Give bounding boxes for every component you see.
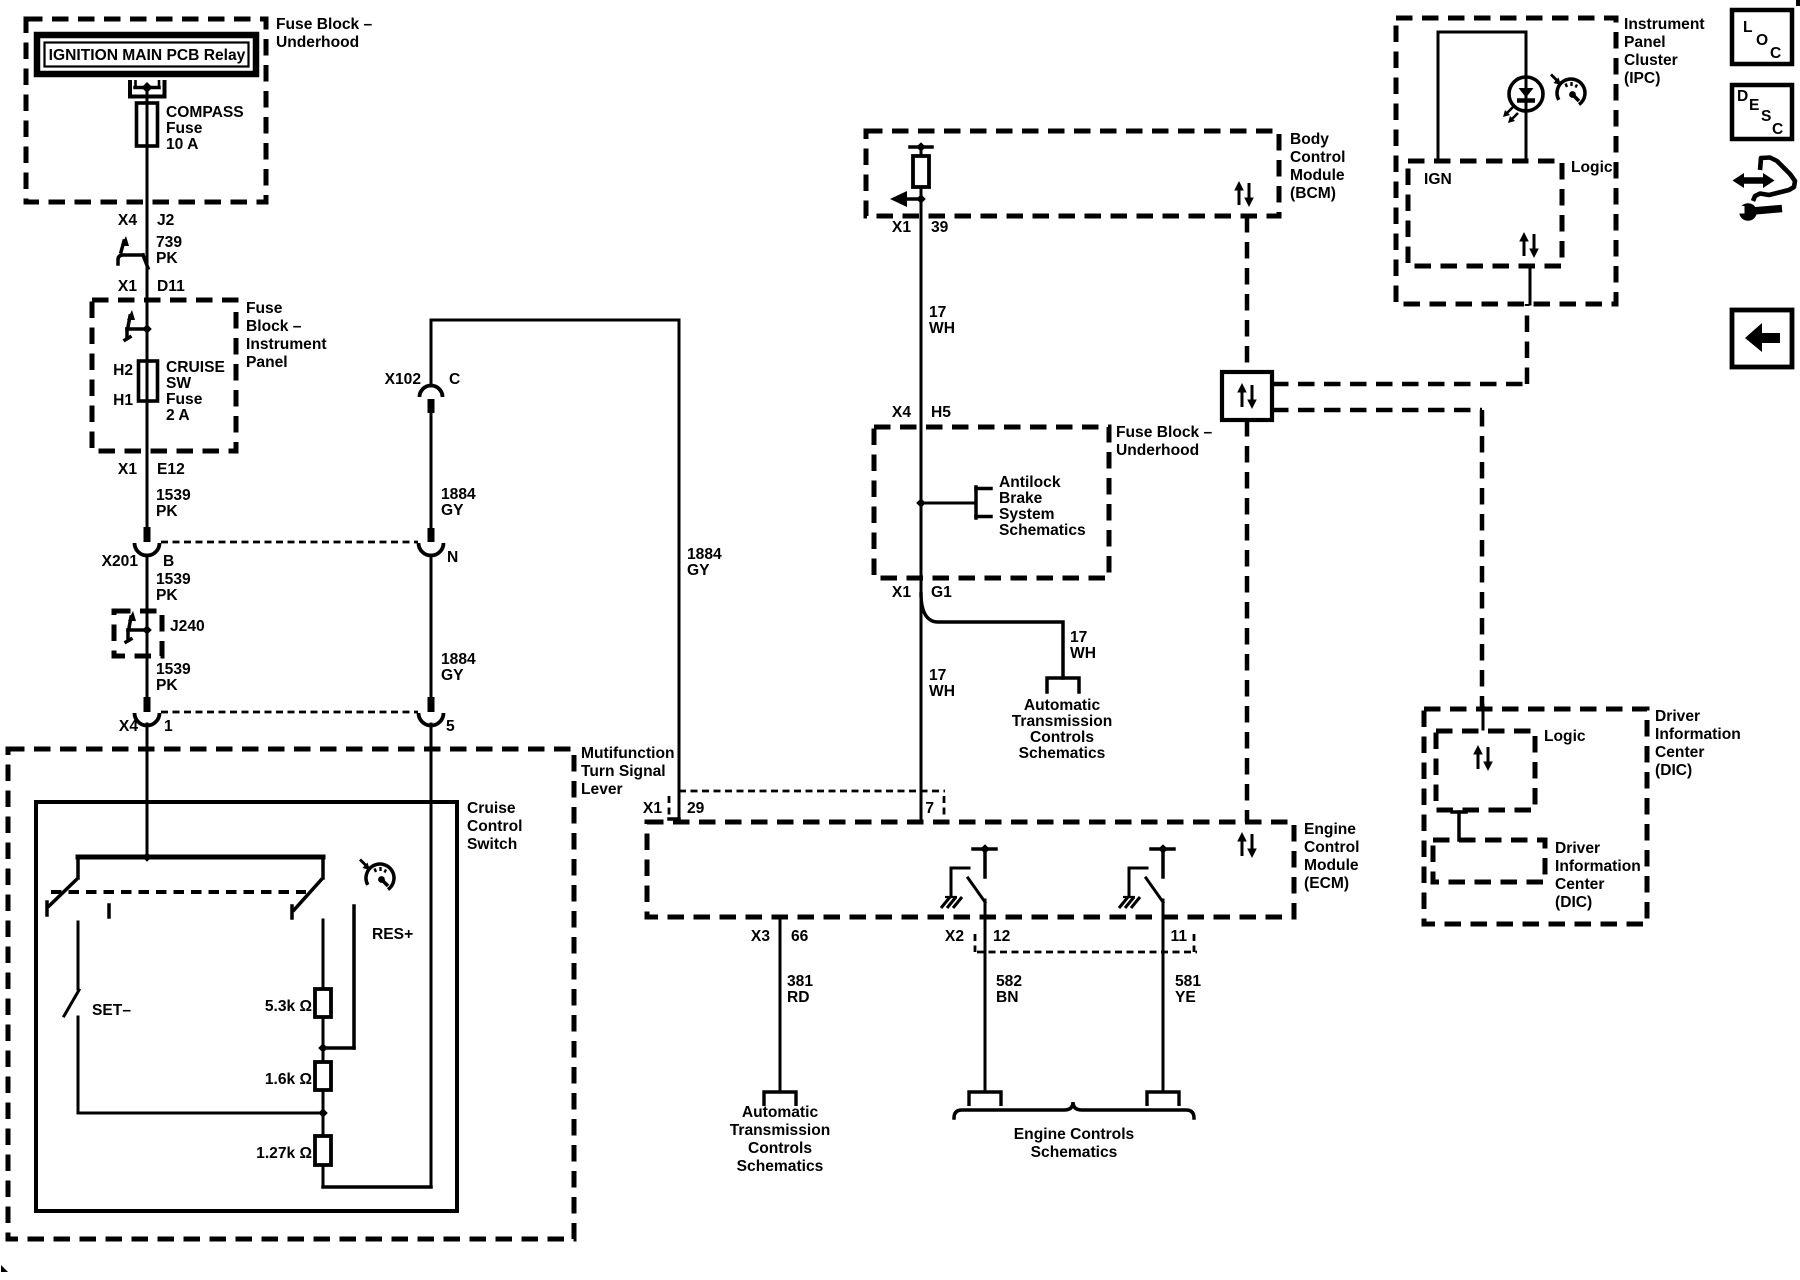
wire 581 YE ECM pin 11 — [1162, 902, 1165, 1092]
svg-text:5: 5 — [446, 718, 455, 735]
svg-text:Schematics: Schematics — [999, 522, 1086, 539]
svg-text:X201: X201 — [102, 553, 139, 570]
wire label 1539 PK (3) — [156, 661, 191, 694]
svg-text:Engine: Engine — [1304, 821, 1356, 838]
svg-text:X3: X3 — [751, 928, 770, 945]
connector X4 pin 1 — [135, 713, 160, 725]
label automatic transmission controls schematics (mid) — [1012, 697, 1113, 762]
svg-text:1884: 1884 — [441, 486, 476, 503]
label COMPASS fuse value — [166, 104, 244, 153]
svg-text:X1: X1 — [892, 584, 911, 601]
svg-text:Fuse: Fuse — [166, 391, 203, 408]
cruise control switch box — [36, 802, 457, 1211]
instrument panel cluster IPC box — [1396, 18, 1616, 304]
wire label 1539 PK (1) — [156, 487, 191, 520]
antilock brake system schematics tap — [916, 487, 991, 518]
relay K1 output terminal — [130, 80, 165, 104]
DIC logic serial arrows — [1473, 745, 1493, 771]
IPC logic serial arrows — [1519, 232, 1539, 258]
multifunction turn signal lever box — [8, 749, 574, 1239]
pin label X3 66 — [751, 928, 809, 945]
svg-text:12: 12 — [993, 928, 1011, 945]
svg-text:Control: Control — [1290, 149, 1345, 166]
svg-text:Underhood: Underhood — [276, 34, 359, 51]
svg-text:BN: BN — [996, 989, 1019, 1006]
svg-text:Panel: Panel — [1624, 34, 1666, 51]
svg-text:1: 1 — [164, 718, 173, 735]
svg-text:17: 17 — [929, 667, 946, 684]
wire 1884 GY X102 branch vertical — [430, 413, 433, 1187]
ECM serial data arrows — [1237, 832, 1257, 858]
wire DIC lead in — [1482, 705, 1485, 729]
fuse block underhood box (middle) — [874, 427, 1109, 578]
svg-text:X4: X4 — [119, 718, 138, 735]
svg-text:X1: X1 — [643, 800, 662, 817]
connector X201 pin B — [135, 543, 160, 555]
label SET- — [92, 1002, 131, 1019]
serial data dashed wire to IPC — [1272, 304, 1527, 384]
svg-text:17: 17 — [1070, 629, 1087, 646]
svg-text:Logic: Logic — [1571, 159, 1613, 176]
wire 381 RD ECM X3-66 — [779, 917, 782, 1092]
svg-text:Body: Body — [1290, 131, 1329, 148]
svg-text:Module: Module — [1304, 857, 1359, 874]
wire 17 WH branch at G1 to automatic transmission — [921, 594, 1063, 678]
connector row ECM X1 29-7 dashed — [669, 791, 945, 816]
switch mechanical link dashed — [51, 892, 306, 917]
svg-text:Fuse Block –: Fuse Block – — [1116, 424, 1213, 441]
wire label 381 RD — [787, 973, 813, 1006]
connector row ECM X2 12-11 dashed — [975, 934, 1197, 952]
svg-text:G1: G1 — [931, 584, 952, 601]
label driver information center (inner) — [1555, 840, 1641, 911]
svg-text:1.6k Ω: 1.6k Ω — [265, 1071, 312, 1088]
pin label X1 39 — [892, 219, 949, 236]
pin label X4 H5 — [892, 404, 951, 421]
label body control module — [1290, 131, 1345, 202]
label engine controls schematics — [1014, 1126, 1135, 1161]
connector label N — [447, 549, 458, 566]
svg-text:Driver: Driver — [1555, 840, 1600, 857]
connector label X4 1 5 — [119, 718, 455, 735]
svg-text:Center: Center — [1555, 876, 1604, 893]
IPC cruise gauge icon — [1551, 75, 1585, 105]
svg-text:Information: Information — [1655, 726, 1741, 743]
icon DESC box — [1732, 85, 1792, 139]
fuse block instrument panel box — [92, 300, 236, 451]
wire label 17 WH (3) — [929, 667, 955, 700]
svg-text:X4: X4 — [892, 404, 911, 421]
svg-text:J2: J2 — [157, 212, 175, 229]
svg-text:Fuse Block –: Fuse Block – — [276, 16, 373, 33]
svg-text:B: B — [163, 553, 174, 570]
svg-text:X102: X102 — [385, 371, 422, 388]
splice J240 box — [114, 611, 162, 656]
svg-text:Schematics: Schematics — [737, 1158, 824, 1175]
icon LOC box — [1732, 10, 1792, 64]
DIC display box — [1433, 840, 1545, 882]
svg-text:WH: WH — [929, 683, 955, 700]
SET- switch branch — [64, 922, 323, 1113]
serial data dashed wire to DIC — [1272, 410, 1482, 709]
engine controls schematics brace — [954, 1102, 1194, 1118]
svg-text:System: System — [999, 506, 1054, 523]
wire 582 BN ECM X2-12 — [984, 902, 987, 1092]
connector label X102 C — [385, 371, 461, 388]
svg-text:C: C — [1770, 45, 1781, 62]
svg-text:RES+: RES+ — [372, 926, 413, 943]
svg-text:Instrument: Instrument — [1624, 16, 1705, 33]
label IGN — [1424, 171, 1452, 188]
inline connector X1-D11 — [118, 236, 148, 268]
connector X201 pin B male tip — [144, 527, 151, 542]
svg-text:Automatic: Automatic — [742, 1104, 819, 1121]
connector pin 5 male tip — [428, 697, 435, 712]
label antilock brake system schematics — [999, 474, 1086, 539]
svg-text:66: 66 — [791, 928, 809, 945]
serial data dashed wire BCM to ECM — [1245, 216, 1250, 822]
svg-text:S: S — [1761, 108, 1771, 125]
svg-text:IGNITION MAIN PCB Relay: IGNITION MAIN PCB Relay — [49, 47, 246, 64]
svg-text:RD: RD — [787, 989, 810, 1006]
svg-text:(BCM): (BCM) — [1290, 185, 1336, 202]
fuse COMPASS 10A — [137, 100, 158, 149]
connector pin N male tip — [428, 528, 435, 542]
svg-text:Fuse: Fuse — [166, 120, 203, 137]
svg-text:(IPC): (IPC) — [1624, 70, 1660, 87]
svg-text:E12: E12 — [157, 461, 185, 478]
svg-text:Controls: Controls — [1030, 729, 1094, 746]
wire label 1884 GY (1) — [441, 486, 476, 519]
svg-text:E: E — [1749, 97, 1759, 114]
svg-text:PK: PK — [156, 250, 178, 267]
go to automatic transmission controls symbol X3-66 — [764, 1092, 796, 1106]
svg-text:29: 29 — [687, 800, 705, 817]
svg-text:PK: PK — [156, 677, 178, 694]
svg-text:Antilock: Antilock — [999, 474, 1061, 491]
label J240 — [170, 618, 205, 635]
resistor 1.27k — [315, 1136, 331, 1165]
svg-text:Driver: Driver — [1655, 708, 1700, 725]
svg-text:17: 17 — [929, 304, 946, 321]
svg-text:X4: X4 — [118, 212, 137, 229]
svg-text:381: 381 — [787, 973, 813, 990]
go to automatic transmission controls symbol (mid) — [1047, 678, 1079, 692]
label engine control module — [1304, 821, 1359, 892]
svg-text:PK: PK — [156, 587, 178, 604]
switch right blade — [292, 857, 323, 918]
IPC cruise indicator LED — [1503, 77, 1543, 123]
svg-text:Center: Center — [1655, 744, 1704, 761]
connector label X201 B — [102, 553, 175, 570]
svg-text:C: C — [449, 371, 460, 388]
DIC logic box — [1436, 731, 1535, 810]
label instrument panel cluster — [1624, 16, 1705, 87]
wire cruise switch bottom run to pin 5 — [323, 1185, 431, 1189]
splice J240 symbol — [126, 611, 152, 642]
svg-text:Turn Signal: Turn Signal — [581, 763, 666, 780]
svg-text:2 A: 2 A — [166, 407, 190, 424]
connector row X4-1-5 dashed — [161, 711, 418, 714]
svg-text:CRUISE: CRUISE — [166, 359, 225, 376]
resistor 1.6k — [315, 1062, 331, 1090]
label RES+ — [372, 926, 413, 943]
wire label 17 WH (1) — [929, 304, 955, 337]
go to engine controls symbol pin 11 — [1147, 1092, 1179, 1106]
svg-text:Engine Controls: Engine Controls — [1014, 1126, 1135, 1143]
svg-text:(DIC): (DIC) — [1655, 762, 1692, 779]
switch RES/SET left blade — [47, 857, 78, 915]
svg-text:N: N — [447, 549, 458, 566]
wire cruise switch common bar — [78, 852, 323, 862]
go to engine controls symbol pin 12 — [969, 1092, 1001, 1106]
svg-text:Brake: Brake — [999, 490, 1043, 507]
svg-text:Switch: Switch — [467, 836, 517, 853]
svg-text:(ECM): (ECM) — [1304, 875, 1349, 892]
svg-text:Automatic: Automatic — [1024, 697, 1101, 714]
connector row X201-B-N dashed — [161, 541, 418, 544]
svg-text:X1: X1 — [118, 461, 137, 478]
wire LED to IPC logic — [1525, 111, 1528, 161]
pin label X4 J2 — [118, 212, 175, 229]
svg-text:SW: SW — [166, 375, 191, 392]
pin label X1 D11 — [118, 278, 185, 295]
svg-text:Mutifunction: Mutifunction — [581, 745, 675, 762]
pin label X1 29 7 — [643, 800, 934, 817]
svg-text:SET–: SET– — [92, 1002, 131, 1019]
ECM driver transistor switch for pin 12 — [941, 844, 996, 918]
fuse block underhood box (top left) — [26, 19, 266, 202]
pin label X2 12 11 — [945, 928, 1187, 945]
svg-text:Instrument: Instrument — [246, 336, 327, 353]
svg-text:Cruise: Cruise — [467, 800, 516, 817]
svg-text:Schematics: Schematics — [1031, 1144, 1118, 1161]
wire 17 WH BCM to ECM pin 7 — [920, 147, 923, 821]
svg-text:10 A: 10 A — [166, 136, 198, 153]
driver information center DIC box — [1424, 709, 1647, 924]
wire label 1884 GY (2) — [441, 651, 476, 684]
ECM driver transistor switch for pin 11 — [1119, 844, 1174, 918]
svg-text:581: 581 — [1175, 973, 1201, 990]
wire IPC logic to serial data — [1529, 266, 1532, 304]
svg-text:Transmission: Transmission — [1012, 713, 1113, 730]
svg-text:WH: WH — [1070, 645, 1096, 662]
svg-text:GY: GY — [687, 562, 710, 579]
pin label X1 E12 — [118, 461, 185, 478]
fuse CRUISE SW 2A — [139, 358, 158, 404]
svg-text:Control: Control — [1304, 839, 1359, 856]
label fuse block instrument panel — [246, 300, 327, 371]
pin labels H2 H1 — [113, 362, 133, 409]
connector X4 pin 1 male tip — [144, 697, 151, 712]
svg-text:1539: 1539 — [156, 487, 191, 504]
label automatic transmission controls schematics (bottom) — [730, 1104, 831, 1175]
svg-text:H1: H1 — [113, 392, 133, 409]
svg-text:X1: X1 — [892, 219, 911, 236]
svg-text:Information: Information — [1555, 858, 1641, 875]
svg-text:D11: D11 — [157, 278, 185, 295]
wire label 1539 PK (2) — [156, 571, 191, 604]
svg-text:5.3k Ω: 5.3k Ω — [265, 998, 312, 1015]
svg-text:Module: Module — [1290, 167, 1345, 184]
svg-text:Underhood: Underhood — [1116, 442, 1199, 459]
connector pin 5 — [419, 713, 444, 725]
wire 1884 GY to ECM pin 29 — [431, 320, 679, 819]
value label 1.6k ohm — [265, 1071, 312, 1088]
BCM resistor — [913, 156, 929, 187]
svg-text:H5: H5 — [931, 404, 951, 421]
icon back arrow box — [1732, 310, 1792, 367]
svg-text:7: 7 — [925, 800, 934, 817]
svg-text:1.27k Ω: 1.27k Ω — [256, 1145, 312, 1162]
label driver information center (outer) — [1655, 708, 1741, 779]
wire label 582 BN — [996, 973, 1022, 1006]
svg-text:J240: J240 — [170, 618, 205, 635]
svg-text:Transmission: Transmission — [730, 1122, 831, 1139]
svg-text:Panel: Panel — [246, 354, 288, 371]
engine control module ECM box — [647, 822, 1294, 917]
svg-text:Controls: Controls — [748, 1140, 812, 1157]
label fuse block underhood — [276, 16, 373, 51]
svg-text:X1: X1 — [118, 278, 137, 295]
svg-text:Fuse: Fuse — [246, 300, 283, 317]
wire label 581 YE — [1175, 973, 1201, 1006]
wire label 739 PK — [156, 234, 182, 267]
label multifunction turn signal lever — [581, 745, 675, 798]
svg-text:1539: 1539 — [156, 661, 191, 678]
svg-text:GY: GY — [441, 667, 464, 684]
icon diagnostic hand arrows wrench — [1733, 158, 1796, 221]
svg-text:D: D — [1737, 88, 1748, 105]
svg-text:1884: 1884 — [687, 546, 722, 563]
svg-text:11: 11 — [1171, 928, 1188, 945]
svg-text:Schematics: Schematics — [1019, 745, 1106, 762]
wire IPC IGN feed — [1438, 32, 1526, 161]
RES+ branch wire — [323, 906, 354, 1048]
link DIC logic to display — [1452, 812, 1466, 840]
svg-text:Cluster: Cluster — [1624, 52, 1678, 69]
svg-text:COMPASS: COMPASS — [166, 104, 244, 121]
svg-text:X2: X2 — [945, 928, 964, 945]
cruise gauge icon — [360, 860, 394, 890]
svg-text:739: 739 — [156, 234, 182, 251]
svg-text:O: O — [1756, 32, 1768, 49]
boxed serial data arrows junction — [1222, 372, 1272, 420]
wire 739/1539 PK main left vertical — [146, 92, 149, 857]
svg-text:WH: WH — [929, 320, 955, 337]
svg-text:C: C — [1772, 121, 1783, 138]
svg-text:IGN: IGN — [1424, 171, 1452, 188]
svg-text:L: L — [1743, 19, 1753, 36]
wire label 17 WH (2) — [1070, 629, 1096, 662]
pin label X1 G1 — [892, 584, 952, 601]
label IPC logic — [1571, 159, 1613, 176]
svg-text:(DIC): (DIC) — [1555, 894, 1592, 911]
label fuse block underhood (middle) — [1116, 424, 1213, 459]
resistor 5.3k — [315, 989, 331, 1017]
svg-text:582: 582 — [996, 973, 1022, 990]
resistor chain wire — [318, 920, 328, 1187]
BCM serial data arrows — [1234, 181, 1254, 207]
label DIC logic — [1544, 728, 1586, 745]
svg-text:PK: PK — [156, 503, 178, 520]
value label 5.3k ohm — [265, 998, 312, 1015]
svg-text:Control: Control — [467, 818, 522, 835]
svg-text:H2: H2 — [113, 362, 133, 379]
IPC logic box — [1408, 161, 1562, 266]
connector pin N — [419, 543, 444, 556]
svg-text:YE: YE — [1175, 989, 1196, 1006]
relay K1 IGNITION MAIN PCB Relay name box — [37, 35, 256, 74]
value label 1.27k ohm — [256, 1145, 312, 1162]
svg-text:Block –: Block – — [246, 318, 302, 335]
connector X102 pin C — [420, 386, 443, 414]
wire branch to antilock brake schematics — [921, 502, 976, 505]
label cruise control switch — [467, 800, 522, 853]
svg-text:1884: 1884 — [441, 651, 476, 668]
body control module BCM box — [866, 131, 1279, 216]
svg-text:Lever: Lever — [581, 781, 623, 798]
svg-text:Logic: Logic — [1544, 728, 1586, 745]
fuse block IP feed tap — [125, 310, 152, 340]
wire label 1884 GY (3) — [687, 546, 722, 579]
label CRUISE SW fuse value — [166, 359, 225, 424]
svg-text:1539: 1539 — [156, 571, 191, 588]
svg-text:39: 39 — [931, 219, 949, 236]
BCM signal sense arrow node — [890, 191, 926, 207]
BCM pullup supply bar — [910, 142, 932, 152]
svg-text:GY: GY — [441, 502, 464, 519]
